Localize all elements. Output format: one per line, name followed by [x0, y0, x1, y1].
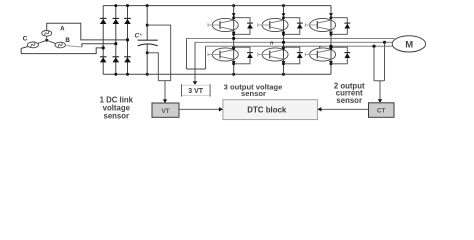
label C: [23, 36, 28, 43]
VT box: [152, 103, 179, 117]
wire neutral to C: [38, 41, 46, 44]
svg-text:sensor: sensor: [241, 89, 266, 98]
rectifier leg 3 wire: [127, 6, 129, 75]
label C capacitor: [134, 33, 141, 40]
node bottom bus x=147.2: [146, 73, 149, 76]
inverter leg 2 wire: [283, 6, 285, 75]
node current tap line3: [372, 45, 375, 48]
svg-text:DTC block: DTC block: [247, 105, 287, 114]
wire dc sensor merge bar: [158, 80, 170, 82]
node neutral Y-point: [45, 39, 49, 42]
svg-text:c: c: [319, 45, 322, 50]
node phase feed leg 3: [126, 38, 129, 41]
capacitor C leg upper: [146, 6, 148, 41]
rectifier top diode D2: [113, 18, 120, 24]
rectifier bottom diode D4: [100, 57, 107, 63]
wire inverter output phase 3: [206, 45, 393, 47]
wire bottom DC bus: [103, 73, 331, 75]
label 3 output voltage sensor: [224, 82, 283, 98]
node bottom bus x=233.7: [232, 73, 235, 76]
AC source phase C: [27, 42, 38, 48]
wire merge to 3VT with arrow: [193, 69, 197, 85]
node phase feed leg 2: [114, 42, 117, 45]
label A: [60, 26, 65, 33]
node current tap line2: [383, 41, 386, 44]
wire phase B feed: [65, 44, 115, 47]
motor M: [392, 36, 425, 52]
arrow CT to DTC: [317, 107, 368, 111]
rectifier top diode D1: [100, 18, 107, 24]
IGBT Q6 bottom with diode: [305, 46, 350, 66]
wire inverter output phase 2: [195, 41, 392, 43]
svg-text:C: C: [23, 36, 28, 43]
3 VT box: [182, 84, 211, 96]
node output line3 leg3: [329, 45, 332, 48]
svg-text:sensor: sensor: [336, 96, 362, 105]
CT box: [369, 103, 395, 118]
wire top DC bus: [103, 5, 331, 7]
node cap lower branch: [146, 51, 149, 54]
node bottom bus x=283.5: [282, 73, 285, 76]
AC source phase A: [42, 31, 52, 37]
wire voltage tap 2: [194, 42, 196, 69]
wire phase A feed: [47, 23, 127, 40]
capacitor C leg lower: [146, 44, 148, 74]
wire dc sensor branch plus: [147, 25, 171, 81]
wire current tap 2: [384, 42, 386, 81]
wire merge to CT with arrow: [378, 81, 382, 103]
wire current tap merge bar: [374, 80, 385, 82]
svg-text:sensor: sensor: [104, 111, 130, 120]
wire voltage tap merge bar: [187, 68, 206, 70]
rectifier bottom diode D6: [124, 57, 131, 63]
node top bus x=233.7: [232, 4, 235, 7]
node cap upper branch: [146, 24, 149, 27]
node bottom bus x=127.5: [126, 73, 129, 76]
rectifier leg 2 wire: [115, 6, 117, 75]
svg-text:M: M: [405, 39, 413, 50]
IGBT Q1 top with diode: [208, 13, 253, 36]
inverter leg 3 wire: [330, 6, 332, 75]
DTC block box: [223, 100, 318, 120]
svg-text:B: B: [65, 37, 70, 44]
capacitor C plates: [138, 40, 158, 46]
label 1 DC link voltage sensor: [100, 95, 134, 120]
svg-text:n: n: [270, 41, 273, 47]
node top bus x=127.5: [126, 4, 129, 7]
wire inverter output phase 1: [187, 37, 395, 39]
rectifier leg 1 wire: [102, 6, 104, 75]
label c on line3: [319, 45, 322, 50]
IGBT Q3 top with diode: [305, 13, 350, 36]
node top bus x=283.5: [282, 4, 285, 7]
wire current tap 1: [373, 46, 375, 81]
wire voltage tap 3: [205, 46, 207, 69]
svg-text:3 VT: 3 VT: [188, 88, 204, 95]
rectifier bottom diode D5: [113, 57, 120, 63]
AC source phase B: [55, 42, 65, 48]
wire phase C feed: [21, 47, 102, 54]
IGBT Q2 top with diode: [258, 13, 303, 36]
svg-text:CT: CT: [377, 108, 386, 115]
svg-text:C: C: [134, 33, 139, 40]
wire neutral to B: [47, 41, 55, 44]
node output line1 leg1: [232, 37, 235, 40]
node top bus x=115.8: [114, 4, 117, 7]
svg-text:A: A: [60, 26, 65, 33]
IGBT Q5 bottom with diode: [258, 46, 303, 66]
node top bus x=147.2: [146, 4, 149, 7]
node bottom bus x=115.8: [114, 73, 117, 76]
wire dc sensor branch minus: [147, 53, 158, 81]
wire A to neutral: [46, 36, 48, 40]
node phase feed leg 1: [102, 46, 105, 49]
IGBT Q4 bottom with diode: [208, 46, 253, 66]
rectifier top diode D3: [124, 18, 131, 24]
svg-text:VT: VT: [161, 108, 169, 115]
arrow VT to DTC: [179, 107, 223, 111]
wire voltage tap 1: [186, 38, 188, 69]
wire dc sensor to VT with arrow: [163, 81, 167, 103]
node output line2 leg2: [282, 41, 285, 44]
label B: [65, 37, 70, 44]
label n on line2: [270, 41, 273, 47]
inverter leg 1 wire: [233, 6, 235, 75]
label 2 output current sensor: [334, 82, 365, 105]
